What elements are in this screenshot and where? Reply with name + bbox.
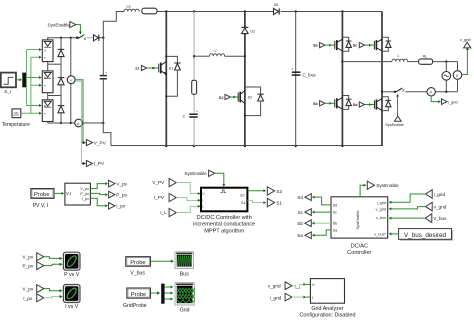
wire: i_grid to analyzer [292,296,304,298]
svg-text:MPPT algorithm: MPPT algorithm [204,228,244,234]
node: leg2 midpoint [381,91,383,93]
svg-text:V_pv: V_pv [23,287,34,292]
svg-text:I_pv: I_pv [82,197,89,201]
svg-text:S_r: S_r [4,89,12,95]
svg-text:S1: S1 [241,201,246,205]
bypass diode D_b1 [58,49,65,56]
diode (S1 internal) [174,63,180,70]
goto-from tag Sa (gate) [313,43,325,48]
PV module 3 [42,100,53,122]
DC/AC controller block [331,197,388,256]
AC source (grid) [442,62,451,92]
PV module 2 [42,71,53,93]
from tag v_grid (right) [426,202,447,211]
resistor RLa block [142,8,157,14]
wire: s1 gate signal [147,67,159,69]
wire: PV1/PV2 tap to diode column [48,63,61,65]
from tag I_PV (MPPT input) [154,194,177,202]
svg-text:i_grid: i_grid [377,201,386,205]
svg-text:i_grid: i_grid [448,99,458,104]
IGBT Qa [335,39,343,51]
svg-text:SysEnable: SysEnable [184,171,207,176]
wire: S2 gate signal [230,96,238,98]
from tag i_grid (right) [426,190,446,199]
svg-text:S1: S1 [169,66,173,70]
svg-text:P_pv: P_pv [80,192,89,196]
svg-text:s1: s1 [135,67,139,71]
wire: bridge leg 2 [381,12,383,147]
wire: I_pv to scope2 [44,297,60,298]
goto tag Sa (left) [297,232,311,239]
svg-text:i_grid: i_grid [270,296,282,301]
wire: PV1-PV2 series link [47,62,49,71]
from tag V_bus (right) [425,214,447,223]
scope Bus [175,252,194,278]
from tag SysEnable (breaker2) [385,116,404,127]
wire: green i_grid measurement [431,96,438,102]
svg-text:T: T [44,84,46,88]
svg-text:S1: S1 [276,201,282,206]
signal source S_r [1,73,16,96]
bypass diode D_b2 [58,78,65,85]
goto tag V_PV [86,140,106,146]
svg-text:D2: D2 [250,29,255,33]
wire: Sd gate signal [365,104,375,106]
goto tag Sb (left) [297,220,311,227]
svg-text:i_grid: i_grid [434,192,446,197]
svg-text:Configuration: Disabled: Configuration: Disabled [299,313,355,319]
constant 25 / Temperature [2,109,30,128]
goto-from tag Sb (gate) [313,101,325,106]
svg-text:25: 25 [13,112,19,118]
wire: green SysEnable to breaker1 [76,25,81,32]
svg-text:Sb: Sb [313,102,319,106]
svg-text:+: + [105,71,107,75]
svg-text:I_PV: I_PV [94,161,105,166]
wire: grid return + breaker2 [382,91,394,93]
svg-text:incremental conductance: incremental conductance [193,222,255,228]
svg-text:V_pv: V_pv [116,181,127,186]
svg-text:S2: S2 [248,96,252,100]
svg-text:P_pv: P_pv [116,192,127,197]
wire: S1 out [247,200,263,202]
PV module 1 [42,40,53,62]
from tag V_pv (scope1) [23,253,44,261]
wire: C_bus leg [295,12,297,147]
goto tag SysEnable (DC/AC) [367,181,399,189]
diode D6 (on top rail) [274,3,280,14]
wire: Sa gate signal [325,44,335,46]
XY scope P vs V [63,252,80,278]
XY scope I vs V [63,285,80,310]
wire: DC link cap column [103,38,111,146]
svg-text:I_pv: I_pv [23,296,33,301]
voltmeter V (PV) [67,76,75,84]
from tag I_L (MPPT input) [160,209,176,217]
svg-text:+: + [291,68,293,72]
svg-text:I_L: I_L [160,210,167,215]
goto-from tag s1 [135,65,147,70]
IGBT Qd [374,99,382,111]
mux2 (grid signals) [161,284,164,304]
svg-text:L: L [398,54,400,58]
svg-text:I: I [202,199,203,203]
wire: Sc gate signal [365,44,375,46]
wire: SysEnable to MPPT enable port [215,173,224,184]
svg-text:Probe: Probe [130,260,145,266]
IGBT S2 [238,91,252,104]
wire: S1 antiparallel diode loop [166,56,177,96]
wire: Sc out [314,211,331,213]
goto-from tag Sd (gate) [353,102,365,107]
svg-text:T: T [44,56,46,60]
svg-text:V_bus: V_bus [433,216,447,221]
wire: mux2 to Grid scope (3 lines) [165,286,174,301]
svg-text:V_PV: V_PV [94,140,107,145]
svg-text:La: La [127,5,131,9]
svg-text:Grid: Grid [180,307,190,313]
wire: breaker to diode D1 [87,37,94,39]
wire: V_bus_desired to DC/AC [391,233,399,235]
wire: V_bus to DC/AC [391,217,425,219]
wire: Sa out [314,230,331,235]
diode (S2 internal) [258,94,264,101]
goto tag SysEnable (top left) [48,22,76,28]
wire: PV bottom bus [48,122,104,124]
wire: V-meter column [70,38,72,123]
wire: PV2/PV3 tap to diode column [48,95,61,97]
node: L' tap [193,55,195,57]
svg-text:S2: S2 [219,96,224,100]
diode D2 [242,27,255,33]
goto-from tag Sc (gate) [353,43,365,48]
from tag i_grid (analyzer) [270,293,292,301]
wire: SysEnable out (top) [360,185,364,197]
wire: green V measurement to V_PV tag [75,80,84,143]
capacitor C_bus [291,68,316,78]
svg-text:v_grid: v_grid [434,205,447,210]
wire: S2 antiparallel diode loop [245,87,261,116]
wire: V_pv to scope2 [44,289,60,291]
node: bottom bus junctions [60,122,62,124]
subsystem V,I [65,183,91,205]
IGBT S1 [159,62,173,76]
wire: breaker2 to ammeter [406,91,428,93]
scope Grid [175,283,195,314]
ammeter A (PV) [75,119,83,127]
svg-text:Probe: Probe [34,192,49,198]
svg-text:DC/AC: DC/AC [351,244,368,250]
capacitor C_in [100,71,108,79]
node: rail junctions [165,10,167,12]
svg-text:Sc: Sc [333,210,338,214]
svg-text:+: + [196,109,198,113]
wire: bottom DC rail [111,145,382,147]
from tag V_PV (MPPT input) [152,179,176,187]
wire: temperature distribution [21,57,40,113]
svg-text:Sd: Sd [353,103,359,107]
wire: PV3 bottom to bottom bus [47,122,49,124]
wire: V_pv to scope1 [44,257,60,259]
from tag v_grid (analyzer) [268,282,292,290]
wire: Sb gate signal [325,102,335,104]
wire: Qa diode loop [342,37,348,51]
goto tag V_pv [109,180,128,187]
goto tag I_PV [86,160,104,166]
svg-text:v_grid: v_grid [268,284,281,289]
node: junction diode column on top wire [60,37,62,39]
wire: Qd diode loop [382,97,388,111]
node: leg1 midpoint [341,60,343,62]
IGBT Qc [374,39,382,51]
svg-text:L': L' [215,49,218,53]
node: junction V column on top wire [70,37,72,39]
wire: AC output to filter [342,61,392,63]
svg-text:P_pv: P_pv [23,264,34,269]
Grid Analyzer block [299,279,355,319]
wire: D2/S2 leg [244,12,246,147]
from tag V_pv (scope2) [23,285,44,293]
diode (Qa internal) [346,41,352,47]
svg-text:I_PV: I_PV [154,195,165,200]
svg-text:A: A [77,121,80,126]
wire: Qb diode loop [342,96,348,110]
IGBT Qb [335,97,343,109]
wire: Sb out [314,222,331,224]
wire: I_pv out [90,198,105,206]
goto tag i_grid (grid) [442,99,458,105]
bypass diode D_b3 [58,106,65,113]
wire: bypass diode column [60,38,62,123]
svg-text:Sd: Sd [297,195,303,200]
from tag I_pv (scope2) [23,294,44,302]
wire: top DC rail [166,11,382,13]
wire: irradiance distribution [26,50,39,106]
wire: bridge leg 1 [341,12,343,147]
wire: P_pv out [90,193,105,194]
svg-text:S2: S2 [240,194,245,198]
probe block Probe (PV V, I) [31,189,54,209]
wire + inductor L' [194,49,245,56]
wire: up to inductor La [103,12,124,38]
wire: v_grid to DC/AC [391,207,426,209]
goto tag I_pv [109,203,126,210]
svg-text:Sb: Sb [333,222,338,226]
wire: snubber column [193,12,195,147]
breaker B2 (sync) [394,87,406,92]
svg-text:Sa: Sa [297,233,303,238]
diode (Qc internal) [386,41,392,47]
diode (Qd internal) [386,100,392,106]
mux (irradiance) [22,73,26,88]
svg-text:P vs V: P vs V [64,272,80,278]
wire: PV top wire to breaker [48,38,76,40]
constant block V_bus_desired [399,229,453,241]
wire: probe to mux2 [150,292,157,294]
goto tag v_grid (top) [460,37,471,48]
from tag SysEnable (MPPT) [184,170,214,176]
wire: green A measurement to I_PV tag [75,81,84,163]
svg-text:v_grid: v_grid [376,208,386,212]
svg-text:Sc: Sc [298,210,304,215]
wire: probe to Bus scope [150,260,171,262]
svg-text:I_pv: I_pv [116,204,126,209]
goto tag S2 [267,187,282,195]
wire: RLa to top rail [157,11,166,13]
svg-text:T: T [44,112,46,116]
node: L' to leg junction [244,55,246,57]
svg-text:D6: D6 [274,3,279,7]
svg-text:V_pv: V_pv [23,255,34,260]
svg-text:v_grid: v_grid [460,37,471,42]
goto tag S1 [267,198,282,206]
MPPT controller block [193,188,255,235]
svg-text:Sb: Sb [297,221,303,226]
wire: Sd out [314,197,331,205]
svg-text:Bus: Bus [180,272,189,278]
goto tag Sc (left) [298,209,312,216]
wire: i_grid to DC/AC [391,194,426,202]
goto tag P_pv [109,191,128,198]
wire: green breaker2 control [397,96,399,116]
svg-text:SysEnable: SysEnable [385,122,404,127]
wire: I_L to MPPT [176,206,198,212]
svg-text:C_bus: C_bus [302,73,316,78]
svg-text:PV V, I: PV V, I [33,203,49,209]
wire: V_pv out [90,184,105,189]
svg-text:V_pv: V_pv [80,187,89,191]
probe block (GridProbe) [123,288,150,309]
wire: S2 out [247,190,263,192]
voltmeter V (grid) [453,62,462,92]
svg-text:Temperature: Temperature [2,122,30,128]
svg-text:A: A [429,90,432,95]
wire: P_pv to scope1 [44,264,60,265]
wire: green v_grid measurement [462,50,468,75]
wire: probe to V,I subsystem [54,192,62,194]
wire: I_PV to MPPT [176,198,198,201]
wire: S1 leg [165,12,167,147]
capacitor C [183,109,198,118]
wire: S_r to mux [16,79,20,81]
wire: PV2-PV3 series link [47,93,49,100]
svg-text:Sd: Sd [333,203,338,207]
diode D1 (blocking) [94,35,104,41]
svg-text:SysEnable: SysEnable [355,210,360,230]
from tag P_pv (scope1) [23,262,44,270]
svg-text:RL: RL [423,54,428,58]
svg-text:v_bus*: v_bus* [374,232,386,236]
svg-text:L: L [202,205,204,209]
svg-text:V_bus_desired: V_bus_desired [404,232,447,239]
svg-text:GridProbe: GridProbe [123,303,147,309]
svg-text:V_bus: V_bus [130,270,145,276]
wire: v_grid to analyzer [292,284,304,288]
wire: Qc diode loop [382,37,388,51]
svg-text:DC/DC Controller with: DC/DC Controller with [197,215,252,221]
svg-text:C: C [183,114,186,118]
svg-text:I: I [312,296,313,300]
goto-from tag S2 (gate) [219,94,231,100]
inductor La [124,5,139,12]
svg-text:SysEnable: SysEnable [376,183,399,188]
breaker B1 (PV disconnect) [76,35,87,42]
svg-text:Grid Analyzer: Grid Analyzer [311,306,344,312]
wire: V_PV to MPPT [176,183,198,194]
svg-text:v: v [70,77,72,82]
svg-text:v_bus: v_bus [376,216,386,220]
svg-text:Sc: Sc [353,44,358,48]
node: grid top junction [445,60,447,62]
svg-text:I vs V: I vs V [65,304,79,310]
svg-text:S2: S2 [276,189,282,194]
inductor L (filter) [392,54,419,62]
node: diode output junction [102,37,104,39]
goto tag Sd (left) [297,194,311,201]
svg-text:V,I: V,I [66,191,71,196]
probe block (V_bus) [126,257,151,277]
svg-text:Controller: Controller [347,250,371,256]
diode (Qb internal) [346,99,352,105]
resistor R snubber [192,80,197,94]
resistor RL [419,54,458,64]
svg-text:V_PV: V_PV [152,180,165,185]
ammeter A (grid) [427,88,458,96]
svg-text:Probe: Probe [131,292,146,298]
svg-text:SysEnable: SysEnable [48,23,71,28]
